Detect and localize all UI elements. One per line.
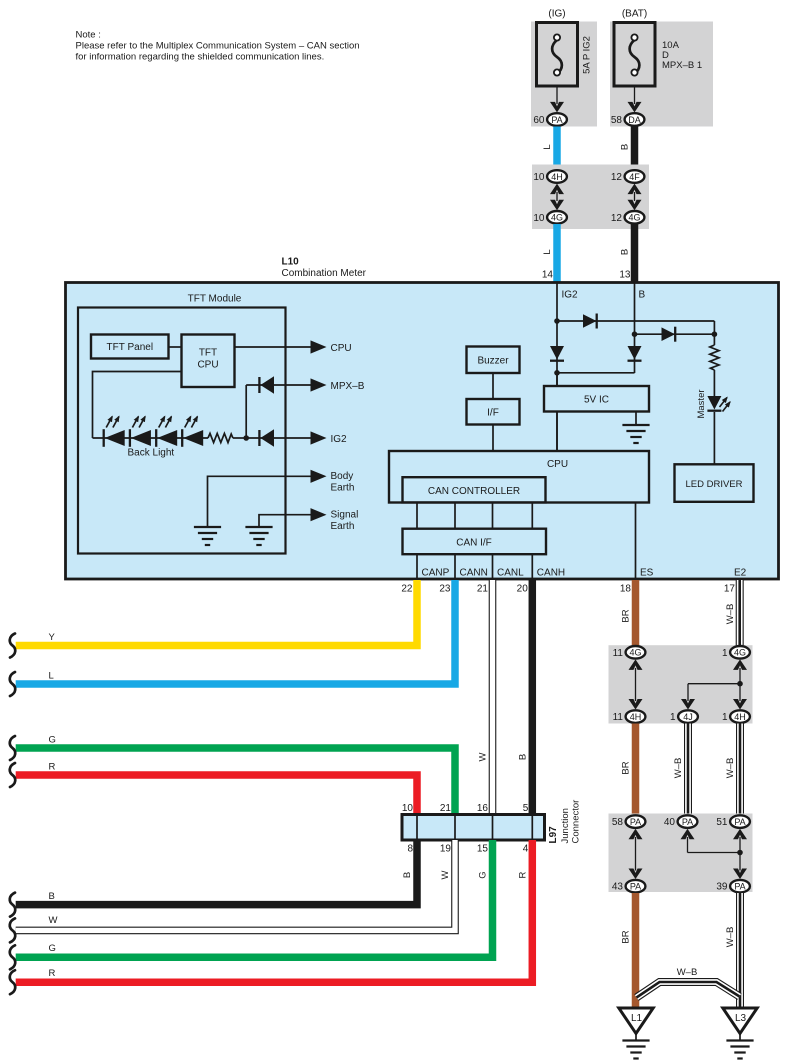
svg-text:G: G	[478, 871, 489, 878]
svg-text:Connector: Connector	[571, 800, 582, 844]
svg-text:PA: PA	[734, 817, 745, 827]
svg-text:L97: L97	[548, 826, 559, 844]
svg-text:W: W	[440, 870, 451, 879]
LED backlight 2	[130, 417, 151, 447]
junction arrows PA left	[629, 829, 643, 879]
gray connector block PA	[609, 814, 753, 893]
wire Y yellow pin22	[16, 580, 417, 646]
junction connector L97	[402, 815, 545, 841]
pin 17 label	[724, 583, 736, 594]
wire MPX-B	[246, 384, 311, 386]
svg-text:IG2: IG2	[331, 434, 348, 445]
svg-text:B: B	[620, 144, 631, 150]
ground point L3	[723, 1008, 757, 1059]
node IG2 top	[554, 318, 560, 324]
wire TFT Panel to TFT CPU	[169, 346, 182, 348]
wire resistor to node	[233, 437, 246, 439]
svg-text:W: W	[49, 915, 58, 926]
svg-text:MPX–B: MPX–B	[331, 381, 365, 392]
connector 10 4H	[533, 170, 567, 183]
svg-text:4G: 4G	[734, 648, 746, 658]
junction pin 5 label	[523, 803, 529, 814]
wire W-B link L1 to L3	[637, 967, 740, 998]
svg-text:20: 20	[517, 583, 529, 594]
svg-text:W–B: W–B	[673, 758, 684, 779]
svg-text:58: 58	[612, 817, 624, 828]
junction pin 16 label	[477, 803, 489, 814]
wire fuse IG to connector PA	[550, 86, 564, 112]
junction pin 10 label	[402, 803, 414, 814]
node (BAT) label	[622, 9, 647, 20]
svg-text:DA: DA	[628, 115, 641, 125]
connector 11 4G	[613, 646, 646, 659]
wire W white pin21 to junction pin16	[478, 580, 493, 815]
connector 58 PA	[612, 815, 646, 828]
wire G green to junction pin21	[16, 735, 455, 815]
svg-text:Body: Body	[331, 471, 354, 482]
svg-text:PA: PA	[630, 817, 641, 827]
svg-text:B: B	[518, 754, 529, 760]
svg-text:B: B	[402, 872, 413, 878]
svg-text:L: L	[49, 671, 54, 682]
svg-text:L: L	[542, 144, 553, 149]
connector 10 4G	[533, 211, 567, 224]
svg-text:W–B: W–B	[677, 967, 698, 978]
svg-text:11: 11	[613, 712, 624, 723]
combination meter L10 label	[282, 257, 367, 280]
wire resistor to master LED	[713, 370, 715, 397]
wire W-B 4H to 51PA	[725, 724, 740, 815]
offpage connector B	[10, 893, 15, 917]
svg-text:CPU: CPU	[331, 343, 352, 354]
svg-text:PA: PA	[682, 817, 693, 827]
TFT Module box	[78, 294, 286, 554]
CPU box	[389, 451, 649, 503]
svg-text:I/F: I/F	[487, 408, 499, 419]
E2 terminal label	[734, 568, 747, 579]
svg-text:10: 10	[402, 803, 414, 814]
LED backlight 1	[104, 417, 125, 447]
CAN CONTROLLER box	[403, 477, 546, 502]
offpage connector G	[10, 736, 15, 760]
offpage connector R	[10, 763, 15, 787]
wire buzzer to I/F	[492, 373, 494, 399]
svg-text:B: B	[620, 249, 631, 255]
wire node to IG2 terminal	[246, 437, 311, 439]
svg-text:1: 1	[722, 648, 728, 659]
wire node into 5V IC	[556, 373, 558, 386]
svg-text:4G: 4G	[629, 648, 641, 658]
svg-text:4G: 4G	[551, 213, 563, 223]
diode MPX-B	[259, 376, 274, 393]
node B line	[632, 331, 638, 337]
svg-text:CANH: CANH	[537, 568, 565, 579]
junction arrows 4G right with branch	[681, 659, 747, 709]
wire BR pin18	[621, 580, 636, 646]
B internal line pin13	[635, 282, 646, 373]
connector 11 4H	[613, 710, 646, 723]
wire node up to MPX-B	[245, 385, 247, 438]
wire R red to junction pin10	[16, 762, 417, 815]
svg-text:IG2: IG2	[562, 290, 579, 301]
node master rail	[712, 331, 718, 337]
svg-text:Junction: Junction	[560, 808, 571, 843]
wire W-B pin17	[725, 580, 740, 646]
fuse 10A D MPX-B 1	[614, 23, 702, 87]
svg-text:L1: L1	[631, 1013, 643, 1024]
note text	[76, 30, 360, 63]
svg-text:5V IC: 5V IC	[584, 395, 609, 406]
TFT Panel box	[91, 335, 169, 359]
connector 39 PA	[716, 880, 750, 893]
wire 5V IC to CPU	[556, 412, 558, 452]
svg-text:CANP: CANP	[422, 568, 450, 579]
svg-text:W–B: W–B	[725, 758, 736, 779]
I/F box	[467, 399, 520, 425]
junction arrows left column	[550, 184, 564, 211]
svg-text:L3: L3	[735, 1013, 747, 1024]
svg-text:G: G	[49, 735, 56, 746]
svg-text:51: 51	[716, 817, 728, 828]
wire G green junction pin15 out	[16, 840, 493, 957]
svg-text:Buzzer: Buzzer	[477, 356, 509, 367]
wire IG2 node to right corner	[557, 321, 714, 334]
connector 43 PA	[612, 880, 646, 893]
svg-text:5A P IG2: 5A P IG2	[582, 36, 593, 74]
svg-text:for information regarding the: for information regarding the shielded c…	[76, 52, 325, 63]
svg-text:L10: L10	[282, 257, 300, 268]
wire TFT CPU to CPU terminal	[235, 340, 352, 354]
wire master rail resistor feed	[713, 334, 715, 345]
wire ES internal	[636, 502, 654, 580]
svg-text:8: 8	[407, 844, 413, 855]
svg-text:4H: 4H	[734, 712, 746, 722]
ground signal earth	[245, 527, 272, 545]
wire W-B 4J to 40PA	[673, 724, 688, 815]
svg-text:B: B	[49, 891, 55, 902]
gray service block right	[610, 22, 713, 127]
wire L blue 60PA to 4H	[542, 127, 557, 171]
node backlight junction	[243, 435, 249, 441]
wire L blue 4G to pin 14	[542, 224, 557, 282]
svg-text:23: 23	[439, 583, 451, 594]
svg-text:TFT: TFT	[199, 348, 217, 359]
gray connector block 4H/4F to 4G	[532, 165, 649, 230]
svg-text:(IG): (IG)	[548, 9, 565, 20]
svg-text:16: 16	[477, 803, 489, 814]
svg-text:CANL: CANL	[497, 568, 524, 579]
svg-text:BR: BR	[621, 930, 632, 943]
wire 5V IC to ground	[635, 412, 637, 425]
wire B black 58DA to 4F	[620, 127, 635, 171]
offpage connector R2	[10, 970, 15, 994]
IG2 terminal arrow	[311, 431, 348, 445]
svg-text:10: 10	[533, 213, 545, 224]
svg-text:Earth: Earth	[331, 521, 355, 532]
svg-text:PA: PA	[630, 882, 641, 892]
wire R red junction pin4 out	[16, 840, 533, 982]
junction pin 15 label	[477, 844, 489, 855]
svg-text:5: 5	[523, 803, 529, 814]
resistor master	[710, 345, 719, 370]
svg-text:4: 4	[523, 844, 529, 855]
connector 12 4G	[611, 211, 645, 224]
svg-text:40: 40	[664, 817, 676, 828]
svg-text:13: 13	[619, 270, 631, 281]
svg-text:L: L	[542, 249, 553, 254]
wire back light row	[93, 437, 209, 439]
wire I/F to CPU	[492, 425, 494, 452]
svg-text:12: 12	[611, 213, 623, 224]
LED DRIVER box	[675, 464, 754, 502]
junction arrows right column	[628, 184, 642, 211]
svg-text:Y: Y	[49, 632, 56, 643]
wire B diode to 5V node	[557, 372, 635, 374]
junction pin 21 label	[440, 803, 452, 814]
svg-text:BR: BR	[621, 609, 632, 622]
svg-text:E2: E2	[734, 568, 747, 579]
wires CAN controller to CAN I/F	[417, 502, 532, 528]
connector 1 4J	[670, 710, 698, 723]
LED master	[707, 396, 730, 412]
wire BR 4H to 58PA	[621, 724, 636, 815]
svg-text:17: 17	[724, 583, 736, 594]
diode B to master rail	[662, 327, 676, 342]
wire B black 4G to pin 13	[619, 224, 634, 282]
signal earth terminal arrow	[311, 508, 359, 532]
LED backlight 4	[182, 417, 203, 447]
wire B black pin20 to junction pin5	[518, 580, 533, 815]
junction arrows 4G-4H left	[629, 659, 643, 709]
svg-text:10: 10	[533, 172, 545, 183]
offpage connector L	[10, 672, 15, 696]
svg-text:CPU: CPU	[547, 459, 568, 470]
Buzzer box	[467, 347, 520, 374]
LED backlight 3	[156, 417, 177, 447]
diode IG2	[259, 429, 274, 446]
svg-text:B: B	[639, 290, 646, 301]
svg-text:CANN: CANN	[460, 568, 488, 579]
wire W white junction pin19 out	[16, 840, 455, 930]
svg-text:R: R	[49, 762, 56, 773]
wire B node to master rail	[635, 333, 715, 335]
svg-text:19: 19	[440, 844, 452, 855]
gray service block left	[531, 22, 597, 127]
svg-text:39: 39	[716, 882, 728, 893]
wire signal earth	[259, 515, 312, 527]
svg-text:R: R	[518, 871, 529, 878]
svg-text:CPU: CPU	[197, 360, 218, 371]
pin 21 label	[477, 583, 489, 594]
junction L97 label	[548, 800, 582, 844]
wire CANP internal	[417, 554, 450, 580]
junction pin 19 label	[440, 844, 452, 855]
svg-text:4J: 4J	[683, 712, 693, 722]
wire B black junction pin8 out	[16, 840, 417, 905]
connector 1 4G	[722, 646, 750, 659]
svg-text:Signal: Signal	[331, 510, 359, 521]
svg-text:MPX–B 1: MPX–B 1	[662, 60, 702, 71]
svg-text:21: 21	[477, 583, 489, 594]
combination meter box	[66, 283, 779, 580]
junction pin 4 label	[523, 844, 529, 855]
svg-text:1: 1	[670, 712, 676, 723]
wire TFT CPU to back light chain	[93, 372, 182, 439]
diode B down	[628, 346, 642, 361]
IG2 internal line pin14	[557, 282, 578, 451]
wire body earth	[208, 476, 312, 526]
MPX-B terminal arrow	[311, 378, 365, 392]
5V IC box	[544, 386, 649, 412]
junction pin 8 label	[407, 844, 413, 855]
diode IG2 to B rail	[583, 314, 597, 329]
wire W-B 39PA to ground L3	[725, 893, 740, 1008]
Back Light label	[128, 448, 175, 459]
ground body earth	[194, 527, 221, 545]
svg-text:Note :: Note :	[76, 30, 101, 41]
connector 60 PA	[533, 113, 567, 126]
wire CANH internal	[532, 554, 565, 580]
svg-text:43: 43	[612, 882, 624, 893]
gray connector block 4G to 4H/4J	[609, 645, 753, 723]
svg-text:18: 18	[620, 583, 632, 594]
svg-text:LED DRIVER: LED DRIVER	[685, 479, 742, 490]
node (IG) label	[548, 9, 565, 20]
svg-text:BR: BR	[621, 761, 632, 774]
wire BR 43PA to ground L1	[621, 893, 636, 1008]
svg-text:4G: 4G	[628, 213, 640, 223]
svg-text:58: 58	[611, 115, 623, 126]
wire L blue pin23	[16, 580, 455, 684]
svg-text:TFT Panel: TFT Panel	[107, 342, 154, 353]
ground 5V IC	[622, 425, 649, 443]
svg-text:W–B: W–B	[725, 604, 736, 625]
svg-text:Combination Meter: Combination Meter	[282, 268, 367, 279]
junction arrows PA right with branch	[681, 829, 748, 879]
svg-text:PA: PA	[551, 115, 562, 125]
TFT CPU box	[182, 335, 235, 388]
svg-text:Please refer to the Multiplex: Please refer to the Multiplex Communicat…	[76, 41, 360, 52]
svg-text:11: 11	[613, 648, 624, 659]
svg-text:60: 60	[533, 115, 545, 126]
svg-text:CAN CONTROLLER: CAN CONTROLLER	[428, 486, 520, 497]
diode IG2 down	[550, 346, 564, 361]
pin 22 label	[401, 583, 413, 594]
offpage connector Y	[10, 634, 15, 658]
wire fuse BAT to connector DA	[628, 86, 642, 112]
svg-text:TFT Module: TFT Module	[188, 294, 242, 305]
wire master LED to LED driver	[713, 412, 715, 464]
wire CANN internal	[455, 554, 488, 580]
node 5V rail	[554, 370, 560, 376]
svg-text:15: 15	[477, 844, 489, 855]
svg-text:Back Light: Back Light	[128, 448, 175, 459]
svg-text:W–B: W–B	[725, 927, 736, 948]
svg-text:W: W	[478, 752, 489, 761]
svg-text:4F: 4F	[629, 172, 640, 182]
connector 12 4F	[611, 170, 645, 183]
svg-text:14: 14	[542, 270, 554, 281]
pin 20 label	[517, 583, 529, 594]
connector 1 4H	[722, 710, 750, 723]
pin 18 label	[620, 583, 632, 594]
connector 51 PA	[716, 815, 750, 828]
connector 58 DA	[611, 113, 645, 126]
svg-text:ES: ES	[640, 568, 654, 579]
svg-text:R: R	[49, 968, 56, 979]
svg-text:22: 22	[401, 583, 413, 594]
connector 40 PA	[664, 815, 698, 828]
svg-text:1: 1	[722, 712, 728, 723]
svg-text:G: G	[49, 943, 56, 954]
offpage connector G2	[10, 945, 15, 969]
wire CANL internal	[493, 554, 525, 580]
svg-text:4H: 4H	[630, 712, 642, 722]
svg-text:CAN I/F: CAN I/F	[456, 538, 492, 549]
resistor backlight	[208, 433, 233, 442]
fuse 5A P IG2	[537, 23, 593, 87]
Master label	[696, 389, 707, 418]
svg-text:(BAT): (BAT)	[622, 9, 647, 20]
ground point L1	[619, 1008, 653, 1059]
pin 23 label	[439, 583, 451, 594]
svg-text:PA: PA	[734, 882, 745, 892]
offpage connector W	[10, 918, 15, 942]
svg-text:Earth: Earth	[331, 483, 355, 494]
svg-text:4H: 4H	[551, 172, 563, 182]
body earth terminal arrow	[311, 470, 355, 494]
svg-text:21: 21	[440, 803, 452, 814]
svg-text:12: 12	[611, 172, 623, 183]
CAN I/F box	[403, 529, 547, 555]
svg-text:Master: Master	[696, 389, 707, 418]
